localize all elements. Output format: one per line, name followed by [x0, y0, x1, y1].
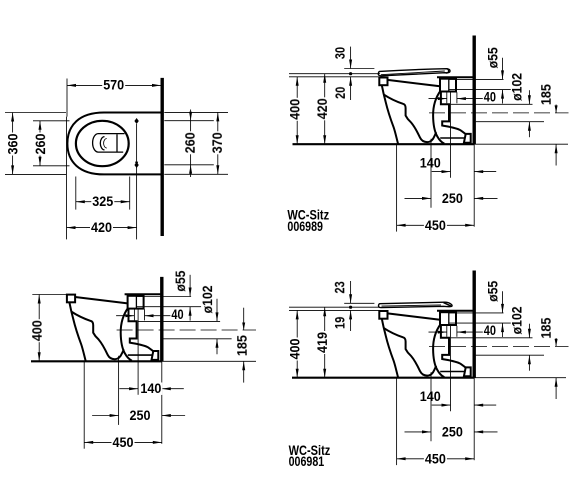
drain axis centerline	[429, 345, 569, 347]
dim 420 extension line left	[66, 117, 68, 240]
ceramic back ledge	[437, 310, 475, 312]
Q1 plan view group	[5, 78, 228, 240]
svg-text:370: 370	[210, 132, 225, 153]
svg-text:360: 360	[6, 133, 21, 154]
svg-text:325: 325	[92, 194, 113, 209]
dim 370 line and arrows	[217, 112, 219, 174]
supply pipe o55 top edge	[449, 78, 504, 80]
bowl interior upper line	[71, 312, 124, 360]
dim 30-20 extension lines	[344, 68, 374, 70]
svg-text:140: 140	[420, 389, 441, 404]
ceramic back ledge	[437, 76, 475, 78]
dim 40 line and arrows	[429, 98, 447, 100]
svg-text:140: 140	[420, 155, 441, 170]
dim 250 arrows	[405, 431, 432, 433]
svg-text:ø102: ø102	[200, 285, 215, 313]
dim 570 extension line	[66, 79, 68, 117]
dim 260 right extension lines	[164, 120, 214, 122]
svg-text:ø55: ø55	[486, 47, 501, 68]
drain pipe o102 bottom edge	[476, 354, 544, 356]
seat and lid 006989	[378, 69, 450, 76]
dim 450 label	[424, 453, 447, 465]
svg-text:40: 40	[484, 90, 496, 105]
pipe annotations Q4	[429, 280, 569, 399]
floor extension right Q2	[474, 143, 568, 145]
bowl trap back curve	[433, 91, 444, 144]
wall extension below floor	[161, 361, 163, 444]
dim 250 arrows	[92, 415, 119, 417]
dim 23 line and arrow	[350, 281, 352, 303]
dim 140 extension line	[137, 309, 139, 395]
svg-text:420: 420	[315, 98, 330, 119]
back staircase outline	[441, 325, 466, 368]
dim 140 label	[419, 157, 442, 169]
dim 419 label	[316, 331, 328, 354]
svg-text:185: 185	[235, 335, 250, 356]
seat hinge curl	[445, 69, 448, 73]
dim 140 extension line	[450, 325, 452, 411]
drain pipe o102 top edge	[138, 320, 220, 322]
dim 370 label	[211, 131, 223, 154]
inlet spud inner	[448, 312, 450, 325]
dim 23 label	[334, 280, 346, 294]
toilet plan inner rim	[76, 121, 129, 166]
back staircase outline	[129, 309, 154, 352]
dim o55 arrows	[502, 58, 504, 80]
dim 400 extension line Q3	[32, 294, 66, 296]
outlet trapezoid	[152, 351, 159, 360]
dim 250 label	[129, 409, 152, 421]
wall line side view Q2	[473, 36, 476, 145]
inlet spud box	[128, 296, 144, 309]
dim 450 extension line	[396, 144, 398, 231]
ceramic front face	[69, 302, 85, 361]
dim 450 label	[424, 219, 447, 231]
Q4 side view group	[288, 271, 569, 470]
pipe annotations Q2	[429, 46, 569, 165]
dim 250 extension line	[118, 356, 120, 425]
dim 140 label	[419, 390, 442, 402]
wall line side view Q3	[160, 277, 163, 361]
ceramic front lip	[379, 78, 387, 86]
dim 40 extension lines	[446, 326, 448, 337]
ceramic rim top slope	[75, 297, 128, 303]
dim 185 arrows	[555, 105, 557, 113]
dim 325 extension lines	[75, 177, 77, 210]
fixing hole bottom diamond	[134, 162, 138, 168]
inlet spud box	[440, 79, 456, 92]
svg-text:400: 400	[288, 99, 303, 120]
dim 40 label	[483, 324, 497, 336]
wall line side view Q4	[473, 271, 476, 378]
dim 450 extension line	[396, 378, 398, 465]
dim o102 arrows	[528, 324, 530, 338]
dim 400 line and arrows	[296, 77, 298, 144]
dim 140 arrows	[432, 404, 451, 406]
inlet spud inner	[448, 79, 450, 92]
supply pipe o55 top edge	[449, 312, 504, 314]
dim 450 label	[112, 436, 135, 448]
svg-text:250: 250	[130, 408, 151, 423]
outlet trapezoid	[464, 367, 471, 376]
drain axis centerline	[429, 112, 569, 114]
plan drain arc 1	[100, 137, 104, 150]
dim o102 arrows	[528, 90, 530, 104]
dim 250 extension line	[430, 139, 432, 208]
dim 420 line and arrows	[324, 74, 326, 145]
supply pipe o55 bottom edge	[449, 322, 514, 324]
svg-text:30: 30	[333, 47, 348, 59]
dim 260 left line and arrows	[39, 121, 41, 166]
inlet spud box	[440, 312, 456, 325]
toilet body Q4	[379, 311, 475, 378]
dim 185 label	[540, 317, 552, 340]
dim o55 arrows	[502, 291, 504, 313]
dim 40 line and arrows	[429, 331, 447, 333]
chain dot 23-19	[349, 306, 352, 309]
dim 400 label Q4	[289, 338, 301, 361]
svg-text:006981: 006981	[289, 454, 325, 469]
ceramic rim top slope	[388, 313, 441, 319]
floor line Q4	[292, 377, 474, 379]
svg-text:19: 19	[333, 316, 348, 328]
svg-text:185: 185	[539, 84, 554, 105]
supply pipe o55 top edge	[136, 296, 191, 298]
dim o55 label	[487, 46, 499, 69]
dim 30 line and arrow	[350, 47, 352, 69]
toilet body Q2	[379, 77, 475, 144]
dim 260 left label	[34, 133, 46, 156]
fixing hole top diamond	[134, 118, 138, 124]
ceramic rim top slope	[388, 80, 441, 86]
outlet ledge line	[440, 137, 465, 139]
dim 260 left extension lines	[33, 120, 70, 122]
seat split line	[381, 71, 445, 75]
drain pipe o102 bottom edge	[163, 338, 231, 340]
flat seat 006981	[378, 302, 452, 307]
back staircase outline	[441, 92, 466, 135]
dim o55 label	[174, 270, 186, 293]
dim 30 label	[334, 46, 346, 60]
bowl interior upper line	[384, 94, 437, 142]
dim 420 label	[316, 97, 328, 120]
svg-text:006989: 006989	[287, 219, 323, 234]
dim o102 arrows	[216, 299, 218, 322]
svg-text:260: 260	[183, 132, 198, 153]
dim 260 right label	[184, 131, 196, 154]
flat seat split line	[382, 305, 442, 306]
dim 360 label	[7, 133, 19, 156]
svg-text:250: 250	[442, 424, 463, 439]
dim 250 label	[441, 192, 464, 204]
supply pipe o55 bottom edge	[449, 89, 514, 91]
dim 40 extension lines	[133, 309, 135, 320]
dim 400 label Q3	[31, 319, 43, 342]
dim o55 arrows	[189, 275, 191, 297]
ceramic front face	[382, 85, 398, 144]
drain pipe o102 top edge	[450, 103, 532, 105]
dim 20 label	[334, 86, 346, 100]
toilet body Q3	[67, 294, 163, 361]
dim 400 label	[289, 98, 301, 121]
plan drain arc 2	[104, 139, 107, 149]
Q2 side view group	[287, 36, 568, 234]
dim 360 line and arrows	[12, 113, 14, 175]
dim 140 extension line	[450, 92, 452, 178]
dim 185 arrows	[243, 308, 245, 330]
svg-text:ø102: ø102	[510, 73, 525, 101]
svg-text:450: 450	[425, 451, 446, 466]
svg-text:400: 400	[30, 320, 45, 341]
flat seat hinge fold	[444, 303, 452, 307]
dim 450 line and arrows	[397, 224, 475, 226]
svg-text:ø102: ø102	[510, 306, 525, 334]
svg-text:419: 419	[315, 332, 330, 353]
floor line Q3	[31, 360, 162, 362]
ceramic front lip	[67, 295, 75, 303]
dim 325 label	[91, 195, 114, 207]
dim 20 line and arrow	[350, 77, 352, 100]
dim o102 label	[511, 72, 523, 102]
dim 185 label	[236, 334, 248, 357]
ceramic back ledge	[125, 293, 163, 295]
supply pipe o55 bottom edge	[136, 306, 201, 308]
dim o102 label	[511, 305, 523, 335]
dim 360 extension lines	[5, 112, 66, 114]
toilet plan outer outline	[67, 113, 161, 175]
dim 370 extension lines	[164, 111, 228, 113]
dim 40 extension lines	[446, 92, 448, 103]
wall line plan view	[160, 78, 163, 236]
dim 40 label	[483, 91, 497, 103]
drain pipe o102 bottom edge	[476, 121, 544, 123]
bowl interior upper line	[384, 328, 437, 376]
dim 400 line and arrows Q4	[296, 310, 298, 377]
svg-text:ø55: ø55	[486, 281, 501, 302]
drain axis centerline	[117, 329, 256, 331]
dim o55 label	[487, 280, 499, 303]
floor extension right Q4	[474, 377, 566, 379]
dim 185 arrows	[555, 338, 557, 346]
hole spacing arrow at bottom diamond	[135, 162, 138, 169]
Q3 side view group	[30, 270, 256, 450]
dim 450 extension line	[83, 361, 85, 448]
dim 570 line and arrows	[67, 84, 161, 86]
dim 450 line and arrows	[397, 458, 475, 460]
dim 400 line and arrows Q3	[38, 295, 40, 362]
dim o102 label	[201, 284, 213, 314]
dim 420 line and arrows	[67, 227, 137, 229]
inlet spud inner	[135, 296, 137, 309]
svg-text:260: 260	[33, 133, 48, 154]
svg-text:570: 570	[103, 78, 124, 93]
dim 40 label	[170, 308, 184, 320]
plan drain outline	[93, 134, 125, 153]
dim 140 arrows	[432, 171, 451, 173]
wall extension below floor	[473, 144, 475, 227]
svg-text:140: 140	[140, 381, 161, 396]
bowl trap back curve	[433, 324, 444, 377]
pipe annotations Q3	[116, 270, 256, 383]
drain pipe o102 top edge	[450, 337, 532, 339]
dim 250 arrows	[405, 197, 432, 199]
dim 23-19 extension lines	[344, 302, 374, 304]
svg-text:23: 23	[332, 281, 347, 293]
svg-text:450: 450	[113, 435, 134, 450]
svg-text:ø55: ø55	[173, 270, 188, 291]
dim 450 line and arrows	[84, 441, 162, 443]
dim 419 line and arrows	[324, 307, 326, 378]
dim 140 label	[139, 382, 162, 394]
floor extension right Q3	[162, 360, 256, 362]
svg-text:450: 450	[425, 218, 446, 233]
dim 250 label	[441, 426, 464, 438]
ceramic front face	[382, 319, 398, 378]
dim 19 label	[334, 316, 346, 330]
dim 420 extension line right	[136, 124, 138, 239]
floor line Q2	[293, 143, 475, 145]
dim 260 right line and arrows	[190, 110, 192, 178]
ceramic front lip	[379, 311, 387, 319]
dim 325 line and arrows	[76, 201, 130, 203]
svg-text:20: 20	[333, 86, 348, 98]
dim 40 line and arrows	[116, 315, 134, 317]
svg-text:40: 40	[484, 323, 496, 338]
plan drain divider	[116, 134, 118, 151]
svg-text:400: 400	[288, 338, 303, 359]
dim 570 label	[102, 79, 125, 91]
svg-text:250: 250	[442, 191, 463, 206]
outlet trapezoid	[464, 134, 471, 143]
dim 420 label	[90, 221, 113, 233]
chain dot 30-20	[349, 72, 352, 75]
wall extension below floor	[473, 378, 475, 461]
dim 19 line and arrow	[350, 310, 352, 331]
outlet ledge line	[440, 371, 465, 373]
dim 140 arrows	[119, 388, 138, 390]
svg-text:420: 420	[91, 220, 112, 235]
bowl trap back curve	[121, 308, 132, 361]
dim 185 label	[540, 83, 552, 106]
outlet ledge line	[128, 354, 153, 356]
svg-text:40: 40	[171, 307, 183, 322]
dim 250 extension line	[430, 372, 432, 441]
svg-text:185: 185	[539, 317, 554, 338]
